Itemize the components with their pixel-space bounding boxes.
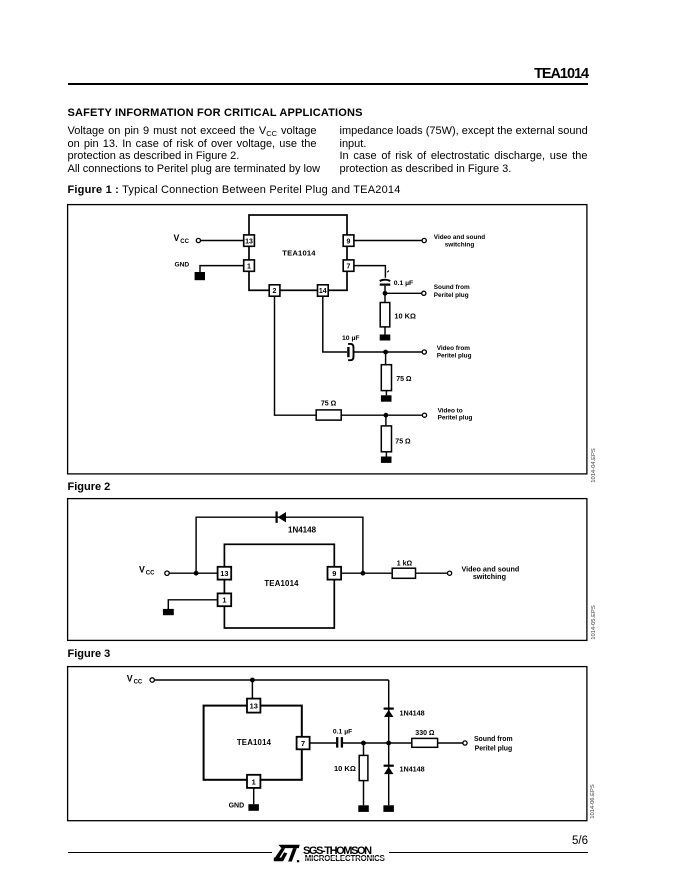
SGS-THOMSON logo [272, 842, 392, 864]
capacitor 0.1 uF [337, 737, 342, 748]
svg-text:Video from: Video from [437, 345, 471, 352]
pin 7 [297, 737, 310, 750]
FIGURE 1 SCHEMATIC [67, 204, 598, 475]
body text right column [340, 125, 588, 175]
svg-text:0.1 µF: 0.1 µF [333, 729, 352, 736]
pin 7 [343, 260, 354, 271]
svg-text:MICROELECTRONICS: MICROELECTRONICS [305, 854, 385, 863]
terminal sound from peritel plug [422, 291, 426, 295]
junction (VCC node) [194, 571, 199, 576]
resistor 10 kohm [359, 743, 368, 805]
resistor 10 kohm [380, 293, 390, 334]
header part number TEA1014 [388, 66, 588, 82]
net VCC label [174, 233, 190, 245]
wire resistor to terminal [438, 742, 463, 744]
svg-text:GND: GND [229, 803, 245, 810]
svg-text:75 Ω: 75 Ω [321, 401, 337, 408]
svg-text:CC: CC [134, 680, 143, 686]
junction (VCC to pin 13) [250, 678, 255, 683]
wire VCC to pin 13 [169, 572, 217, 574]
caption figure 2 [68, 481, 111, 493]
ground (pin 1) [248, 804, 259, 811]
ground (10 K resistor) [358, 805, 369, 812]
svg-text:13: 13 [250, 702, 258, 711]
capacitor 0.1 uF (pin 7) [380, 280, 391, 294]
wire pin 14 to capacitor 10 uF [323, 296, 347, 352]
svg-text:Peritel plug: Peritel plug [434, 292, 469, 299]
svg-text:10 µF: 10 µF [342, 335, 360, 342]
svg-text:Video to: Video to [438, 408, 463, 415]
svg-text:7: 7 [347, 263, 351, 270]
junction (pin 9 node) [361, 571, 366, 576]
ground (10 K resistor) [380, 335, 391, 341]
wire pin 1 to ground [253, 788, 255, 804]
body text left column [68, 125, 317, 175]
svg-text:CC: CC [146, 571, 155, 577]
diode 1N4148 (top, to VCC) [384, 709, 394, 717]
pin 9 [343, 235, 354, 246]
pin 13 [218, 567, 232, 580]
pin 1 [244, 260, 255, 271]
wire diode branch [388, 680, 390, 805]
resistor 75 ohm (video from) [381, 352, 391, 395]
svg-text:Video and sound: Video and sound [434, 234, 485, 241]
resistor 1 kohm [392, 568, 415, 578]
svg-text:Sound from: Sound from [474, 736, 513, 743]
junction (sound node) [383, 291, 388, 296]
wire pin 7 to capacitor [354, 266, 386, 278]
svg-text:75 Ω: 75 Ω [395, 438, 411, 445]
diode 1N4148 [277, 511, 286, 523]
svg-text:2: 2 [273, 288, 277, 295]
svg-text:9: 9 [332, 569, 336, 578]
svg-text:V: V [174, 233, 180, 243]
junction (10 K node) [361, 741, 366, 746]
svg-text:TEA1014: TEA1014 [264, 579, 299, 588]
FIGURE 3 SCHEMATIC [67, 666, 598, 821]
svg-text:Peritel plug: Peritel plug [475, 745, 513, 752]
diode 1N4148 (bottom, to ground) [384, 766, 394, 774]
terminal video to peritel plug [422, 413, 426, 417]
wire resistor to terminal [416, 572, 448, 574]
svg-text:330 Ω: 330 Ω [415, 730, 435, 737]
polarity mark [387, 271, 389, 273]
wire pin 2 to 75 ohm series resistor [275, 296, 317, 415]
terminal sound from peritel plug [463, 741, 467, 745]
svg-text:Peritel plug: Peritel plug [438, 415, 473, 422]
header rule [68, 83, 588, 85]
svg-text:13: 13 [245, 238, 253, 245]
svg-text:V: V [139, 565, 145, 575]
svg-text:TEA1014: TEA1014 [237, 738, 272, 747]
terminal video and sound switching [422, 238, 426, 242]
terminal video from peritel plug [422, 350, 426, 354]
wire pin 7 to capacitor [310, 742, 337, 744]
FIGURE 2 SCHEMATIC [67, 498, 598, 641]
ground (pin 1) [163, 609, 174, 615]
capacitor 10 uF [348, 344, 383, 360]
pin 9 [328, 567, 342, 580]
wire VCC riser and diode branch [196, 517, 363, 573]
svg-text:10 KΩ: 10 KΩ [394, 312, 416, 321]
svg-text:13: 13 [220, 569, 228, 578]
junction (video from node) [383, 350, 388, 355]
svg-text:1014-05.EPS: 1014-05.EPS [591, 605, 597, 640]
svg-text:1 kΩ: 1 kΩ [397, 561, 413, 568]
wire to video to terminal [341, 414, 422, 416]
wire pin 9 to resistor [341, 572, 392, 574]
svg-text:Sound from: Sound from [434, 284, 470, 291]
wire pin 1 to ground [168, 600, 217, 609]
svg-text:10 KΩ: 10 KΩ [334, 764, 356, 773]
footer rule right [389, 852, 588, 853]
ST logo mark [274, 845, 300, 863]
svg-text:Peritel plug: Peritel plug [437, 352, 472, 359]
IC U1 TEA1014 body [204, 706, 302, 780]
label video and sound switching [462, 565, 520, 581]
wire junction to pin 13 [251, 680, 253, 699]
svg-text:1N4148: 1N4148 [288, 525, 317, 534]
junction (diode node) [386, 741, 391, 746]
label video to peritel plug [438, 408, 473, 422]
svg-text:1N4148: 1N4148 [400, 709, 425, 718]
terminal VCC [150, 678, 154, 682]
wire capacitor to resistor 330 [343, 742, 412, 744]
ground (pin 1) [195, 272, 205, 280]
label video from peritel plug [437, 345, 472, 359]
figure 1 frame [68, 205, 587, 474]
caption figure 3 [68, 648, 111, 660]
net VCC label [127, 674, 143, 686]
wire pin 9 to terminal [354, 240, 422, 242]
svg-text:1014-04.EPS: 1014-04.EPS [591, 448, 597, 483]
footer rule left [68, 852, 272, 853]
section heading [68, 107, 363, 119]
IC U1 TEA1014 body [249, 215, 347, 290]
terminal video and sound switching [448, 571, 452, 575]
svg-text:CC: CC [180, 239, 189, 245]
svg-text:TEA1014: TEA1014 [282, 249, 316, 258]
resistor 75 ohm (series) [316, 410, 341, 420]
ground (75 ohm video to) [381, 457, 392, 463]
resistor 75 ohm (video to) [381, 415, 391, 456]
svg-text:14: 14 [319, 288, 327, 295]
svg-text:7: 7 [301, 739, 305, 748]
svg-text:1: 1 [247, 263, 251, 270]
pin 2 [269, 285, 280, 296]
terminal VCC [196, 238, 200, 242]
net VCC label [139, 565, 155, 577]
svg-text:0.1 µF: 0.1 µF [394, 280, 413, 287]
figure 2 frame [68, 499, 587, 641]
resistor 330 ohm [412, 738, 438, 747]
ground (diode branch) [383, 805, 394, 812]
svg-text:1: 1 [222, 596, 226, 605]
svg-text:GND: GND [175, 262, 190, 269]
svg-text:9: 9 [347, 238, 351, 245]
pin 14 [318, 285, 329, 296]
pin 1 [218, 593, 232, 606]
svg-text:switching: switching [473, 572, 506, 581]
svg-text:75 Ω: 75 Ω [396, 376, 412, 383]
label sound from peritel plug [474, 736, 513, 752]
pin 13 [244, 235, 255, 246]
junction (video to node) [384, 413, 389, 418]
pin 1 [247, 775, 260, 788]
svg-text:switching: switching [445, 242, 475, 249]
svg-text:V: V [127, 674, 133, 684]
caption figure 1 [68, 184, 401, 196]
svg-text:1: 1 [252, 777, 256, 786]
wire to sound terminal [385, 292, 422, 294]
wire VCC rail [154, 679, 388, 681]
wire pin 1 to ground [200, 266, 244, 272]
wire VCC to pin 13 [201, 240, 244, 242]
IC U1 TEA1014 body [224, 544, 334, 628]
pin 13 [247, 699, 260, 713]
svg-text:1014-06.EPS: 1014-06.EPS [590, 784, 596, 819]
figure 3 frame [68, 667, 587, 821]
terminal VCC [165, 571, 169, 575]
svg-text:1N4148: 1N4148 [400, 764, 425, 773]
wire to video from terminal [386, 351, 423, 353]
label sound from peritel plug [434, 284, 470, 299]
label video and sound switching [434, 234, 485, 249]
page number 5/6 [488, 835, 588, 847]
ground (75 ohm video from) [381, 395, 392, 401]
